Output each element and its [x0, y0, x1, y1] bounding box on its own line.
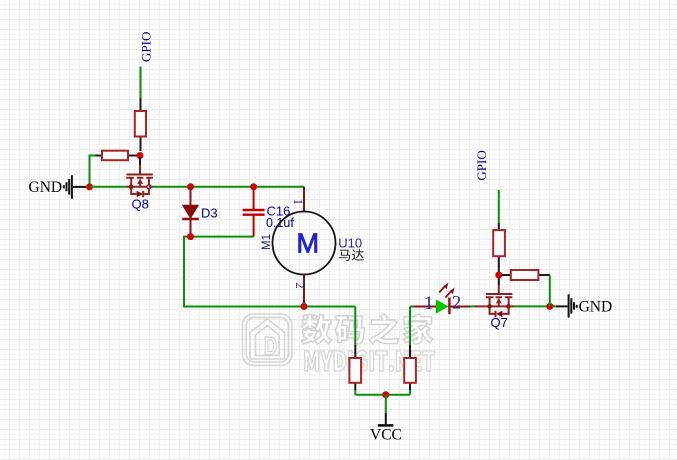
svg-text:2: 2	[293, 282, 307, 288]
wire pulldown right down to rail	[549, 275, 551, 306]
svg-text:1: 1	[291, 199, 305, 205]
svg-text:D3: D3	[201, 206, 218, 221]
wire Q7 to GND right	[514, 305, 557, 307]
resistor R-right-series (vertical)	[493, 223, 505, 272]
wire bottom rail	[355, 394, 410, 396]
diode D3	[182, 187, 217, 237]
junction node gate Q8	[137, 152, 144, 159]
junction D3 top	[187, 183, 194, 190]
watermark logo	[243, 314, 293, 366]
svg-text:M: M	[296, 228, 319, 259]
svg-text:2: 2	[452, 293, 462, 314]
svg-text:D: D	[264, 331, 277, 360]
wire GPIO left vertical	[140, 67, 142, 99]
wire VCC stem green	[385, 395, 387, 413]
wire left bottom resistor top	[354, 307, 356, 346]
resistor R-left-series (vertical)	[135, 98, 146, 151]
transistor Q8	[126, 158, 153, 212]
svg-text:GPIO: GPIO	[139, 32, 154, 62]
motor U10	[261, 187, 364, 307]
power port VCC	[370, 413, 402, 444]
resistor R-right-pulldown (horizontal)	[502, 270, 550, 280]
resistor R-motor (bottom left vertical)	[349, 345, 361, 395]
svg-text:Q8: Q8	[132, 197, 149, 212]
svg-text:Q7: Q7	[491, 315, 508, 330]
power port GND right	[556, 294, 612, 317]
resistor R-left-pulldown (horizontal)	[96, 151, 138, 161]
svg-text:VCC: VCC	[370, 427, 402, 444]
wire bottom-left loop	[184, 237, 355, 307]
wire LED to Q7	[470, 305, 475, 307]
watermark text 数码之家	[301, 314, 432, 344]
wire pulldown to GND rail	[90, 156, 96, 186]
junction motor bottom	[301, 303, 308, 310]
wire GPIO right vertical	[498, 190, 500, 223]
svg-text:GPIO: GPIO	[474, 150, 489, 180]
junction VCC	[382, 391, 389, 398]
watermark text MYDIGIT.NET	[305, 351, 435, 372]
comment label 马达	[339, 249, 364, 261]
junction GND right	[546, 303, 553, 310]
svg-text:1: 1	[424, 293, 434, 314]
junction node gate Q7	[495, 272, 502, 279]
resistor R-led (bottom right vertical)	[404, 307, 416, 395]
power port GND left	[29, 175, 87, 198]
wire rail1 segment GND to Q8	[90, 186, 127, 188]
svg-text:GND: GND	[579, 298, 613, 315]
junction C16 top	[250, 183, 257, 190]
capacitor C16	[243, 187, 295, 237]
LED	[410, 283, 470, 315]
junction D3 bottom	[187, 233, 194, 240]
svg-text:M1: M1	[261, 234, 273, 250]
transistor Q7	[475, 278, 514, 331]
wire rail1 Q8 to motor	[153, 186, 304, 188]
svg-text:U10: U10	[338, 236, 362, 251]
junction GND left	[86, 183, 93, 190]
svg-text:GND: GND	[29, 179, 63, 196]
